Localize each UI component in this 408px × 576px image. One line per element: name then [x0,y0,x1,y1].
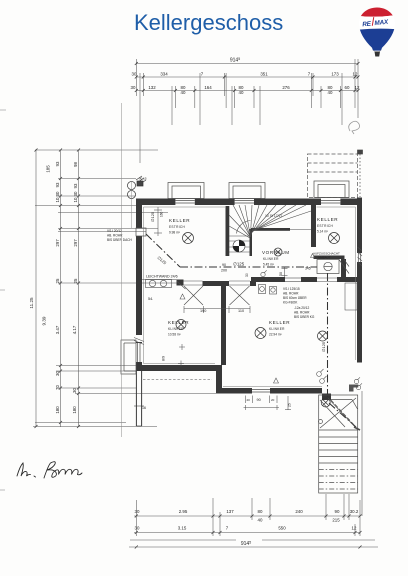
stair arc [237,221,251,234]
south wall lower part [216,388,252,394]
dim line row1 [136,76,358,78]
svg-text:132: 132 [148,85,156,90]
svg-text:200: 200 [221,269,227,273]
washbasin double [146,280,172,288]
tiny texts inside plan [107,177,326,411]
pipes top-left corner [128,176,147,199]
dimension slash tick marks [35,62,362,549]
svg-text:3.15: 3.15 [178,526,187,531]
svg-text:30: 30 [245,273,249,277]
landing diagonals [328,398,356,428]
interior wall face thin lines [144,207,356,387]
svg-text:90: 90 [222,263,226,267]
mid wall post right of door2 [250,281,256,286]
vent circles near stair door [354,379,358,383]
svg-text:3.47: 3.47 [55,325,60,334]
left wall niche box [136,228,146,236]
right side marks above [358,150,363,197]
drain keller lower-left [176,320,186,330]
RE/MAX balloon logo [355,0,399,57]
treads [319,429,358,431]
svg-text:25: 25 [55,278,60,283]
drain keller top-right [329,233,340,244]
svg-text:11.25: 11.25 [29,297,34,309]
svg-text:10: 10 [55,197,60,202]
stair rail horizontal [251,228,290,231]
vorraum door lintel [285,277,301,279]
window 2 glazing [235,200,254,202]
svg-text:22.94 m²: 22.94 m² [269,333,282,337]
svg-text:BIS ÜBER DACH: BIS ÜBER DACH [107,238,132,242]
dim line row2 [136,90,358,92]
svg-text:AB. ROHR: AB. ROHR [107,234,123,238]
svg-text:KLINKER: KLINKER [168,327,184,331]
svg-text:10: 10 [73,197,78,202]
drain vorraum [274,248,282,256]
top wall [136,199,175,206]
svg-text:BIS ÜBER KG: BIS ÜBER KG [294,315,315,319]
elevator right wall [341,259,346,277]
svg-text:30: 30 [55,191,60,196]
leichtwand partition [142,279,177,281]
svg-text:40: 40 [258,518,263,523]
diagonal dashed walking line [331,400,356,427]
svg-text:297: 297 [55,239,60,247]
door2 swing X [230,286,250,305]
chain line outer [35,150,37,427]
pipe riser faint line [131,181,133,228]
light well bay 3 [314,181,349,198]
door1 swing X [184,286,203,305]
room labels [168,217,340,337]
window 3 glazing [321,200,340,202]
90 bracket below south wall [245,396,247,404]
stair door threshold [322,394,331,401]
svg-text:KLINKER: KLINKER [269,327,285,331]
crosses [179,344,185,350]
svg-text:30: 30 [135,509,140,514]
stair wedge treads left flight [229,215,250,237]
wc fixtures [259,285,266,294]
svg-text:40: 40 [181,90,186,95]
site boundary faint line left [120,103,122,437]
svg-text:550: 550 [278,526,286,531]
A triangles [180,294,185,299]
window 1 glazing [175,200,194,202]
elevator door triangle [311,254,315,258]
light well bay 2 [229,183,265,199]
svg-text:12: 12 [353,72,358,77]
left wall stub below [134,371,144,426]
svg-text:80: 80 [258,509,263,514]
svg-text:160: 160 [160,211,164,217]
svg-text:KLINKER: KLINKER [263,257,279,261]
chain line inner [78,150,80,427]
svg-text:30: 30 [131,85,136,90]
left dim texts (rotated) [29,161,78,414]
svg-text:173: 173 [331,72,339,77]
svg-text:20: 20 [271,398,275,402]
svg-text:KG-FBOK: KG-FBOK [283,301,298,305]
elevator top wall [314,256,345,260]
drain at exterior stair door [321,398,330,407]
svg-text:5.14 m²: 5.14 m² [317,230,328,234]
small circle mark on landing [319,420,323,424]
svg-text:VS.I 20/12: VS.I 20/12 [107,229,122,233]
svg-text:VS.I 125/15: VS.I 125/15 [283,287,300,291]
svg-text:KELLER: KELLER [317,217,338,222]
svg-text:30: 30 [55,371,60,376]
svg-text:334: 334 [160,72,168,77]
right outer line [361,391,363,516]
svg-text:25: 25 [288,403,292,407]
svg-text:KELLER: KELLER [169,218,190,223]
drain on canal line [318,331,328,341]
mid wall segment [203,281,230,286]
vent circle near wc [261,272,265,276]
right wall window glazing [357,253,359,262]
connector lines [35,149,158,151]
svg-text:90.15: 90.15 [139,177,147,181]
svg-text:ESTRICH: ESTRICH [169,225,185,229]
svg-text:16: 16 [142,406,146,410]
svg-text:276: 276 [282,85,290,90]
dim line 914.5 [136,63,358,65]
svg-text:KELLER: KELLER [269,320,290,325]
balloon red top [355,0,399,17]
svg-text:4.17: 4.17 [72,325,77,334]
svg-text:185: 185 [46,165,51,173]
elevator door lintel [317,277,337,279]
door2 lintel [229,280,250,282]
svg-text:12: 12 [355,85,360,90]
drain keller lower-right [255,328,266,339]
svg-text:LEICHTWAND 24/6: LEICHTWAND 24/6 [146,275,178,279]
svg-text:164: 164 [204,85,212,90]
south step wall [216,365,222,388]
balloon blue bottom [355,29,399,52]
stair door jamb step [349,385,358,392]
chain line middle [60,150,62,427]
svg-text:VORRAUM: VORRAUM [262,250,290,255]
svg-text:240: 240 [295,509,303,514]
svg-text:54.: 54. [148,297,153,301]
svg-text:40: 40 [239,90,244,95]
svg-text:190: 190 [200,309,206,313]
stair run south edge [290,229,311,231]
vorraum south wall [251,277,285,282]
svg-text:93: 93 [55,182,60,187]
bottom dim texts [135,509,359,547]
svg-text:93: 93 [55,161,60,166]
svg-text:70: 70 [55,385,60,390]
svg-text:30: 30 [73,191,78,196]
dotted floor channel [143,379,212,381]
svg-text:297: 297 [73,239,78,247]
svg-text:40: 40 [328,90,333,95]
svg-text:10.58 m²: 10.58 m² [168,333,181,337]
svg-text:BIS 60cm ÜBER: BIS 60cm ÜBER [283,296,307,300]
svg-text:Kellergeschoss: Kellergeschoss [134,10,283,35]
light well bay 1 [168,183,204,199]
balloon basket [375,52,381,57]
stair outline [319,395,358,493]
handwritten note lt. Plan [17,462,82,478]
stair straight treads left flight [229,235,250,237]
svg-text:AB. ROHR: AB. ROHR [294,311,310,315]
svg-text:20: 20 [247,398,251,402]
stair direction circle [233,240,245,252]
svg-text:90: 90 [257,398,261,402]
right wall hatch [358,247,363,266]
svg-text:351: 351 [260,72,268,77]
vorraum 50 dim line [284,267,286,277]
extension verticals top [135,59,137,96]
dim marks inside plan [143,207,362,410]
dark corner mark right [354,427,360,430]
svg-text:180: 180 [72,406,77,414]
svg-text:110: 110 [238,309,244,313]
balloon RE/MAX text [362,16,390,29]
svg-text:-12a 20/12: -12a 20/12 [294,306,309,310]
stairwell left wall [226,206,230,256]
svg-text:93: 93 [73,183,78,188]
svg-text:10 St 17/27: 10 St 17/27 [265,214,282,218]
left light well [121,340,136,374]
svg-text:30.2: 30.2 [350,509,359,514]
25 tick [287,396,289,410]
south window glazing [252,389,270,391]
svg-text:KELLER: KELLER [168,320,189,325]
svg-text:UMBAUT: UMBAUT [318,256,331,260]
right wall [357,198,362,254]
left wall window glazing [137,343,139,362]
svg-text:215: 215 [332,518,340,523]
extension verticals bottom [135,500,137,536]
interior wall between lower kellers [221,283,226,365]
landing bulkhead box [331,399,352,401]
drain keller top-left [183,233,194,244]
svg-text:9.98 m²: 9.98 m² [169,231,180,235]
svg-text:∅125: ∅125 [233,262,245,267]
svg-text:25: 25 [73,278,78,283]
door swing small near washbasin [177,281,186,289]
dia125 vertical dim line left room [157,207,159,236]
left wall [136,199,142,229]
svg-text:137: 137 [226,509,234,514]
svg-text:∅125: ∅125 [321,341,326,352]
door width verticals [183,306,185,313]
svg-text:98: 98 [73,162,78,167]
svg-text:30: 30 [132,72,137,77]
wall break marks left [134,335,144,345]
door1 lintel [184,280,203,282]
svg-text:AB. ROHR: AB. ROHR [283,292,299,296]
svg-text:345: 345 [305,267,311,271]
south wall upper part [136,365,222,371]
svg-text:180: 180 [55,406,60,414]
svg-text:∅125: ∅125 [150,211,155,222]
svg-text:2.95: 2.95 [179,509,188,514]
svg-text:30: 30 [135,526,140,531]
stair rail vertical [250,229,253,256]
right wall niche [345,283,357,310]
svg-text:90: 90 [335,509,340,514]
top dim texts [131,57,360,95]
svg-text:60: 60 [345,85,350,90]
balloon white band [355,15,399,31]
scanner edge marks [0,110,6,490]
svg-text:9.39: 9.39 [42,316,47,325]
stairwell right wall [311,205,316,247]
revision squiggle mark [349,121,360,134]
mid wall door post left [177,280,184,286]
svg-text:30: 30 [72,388,77,393]
stair fan treads [233,205,251,237]
svg-text:ESTRICH: ESTRICH [317,224,333,228]
svg-text:12: 12 [352,526,357,531]
vent circles near canal [317,372,322,377]
svg-text:5.45 m²: 5.45 m² [263,263,274,267]
svg-text:8/9: 8/9 [162,356,166,361]
svg-text:50: 50 [279,272,283,276]
